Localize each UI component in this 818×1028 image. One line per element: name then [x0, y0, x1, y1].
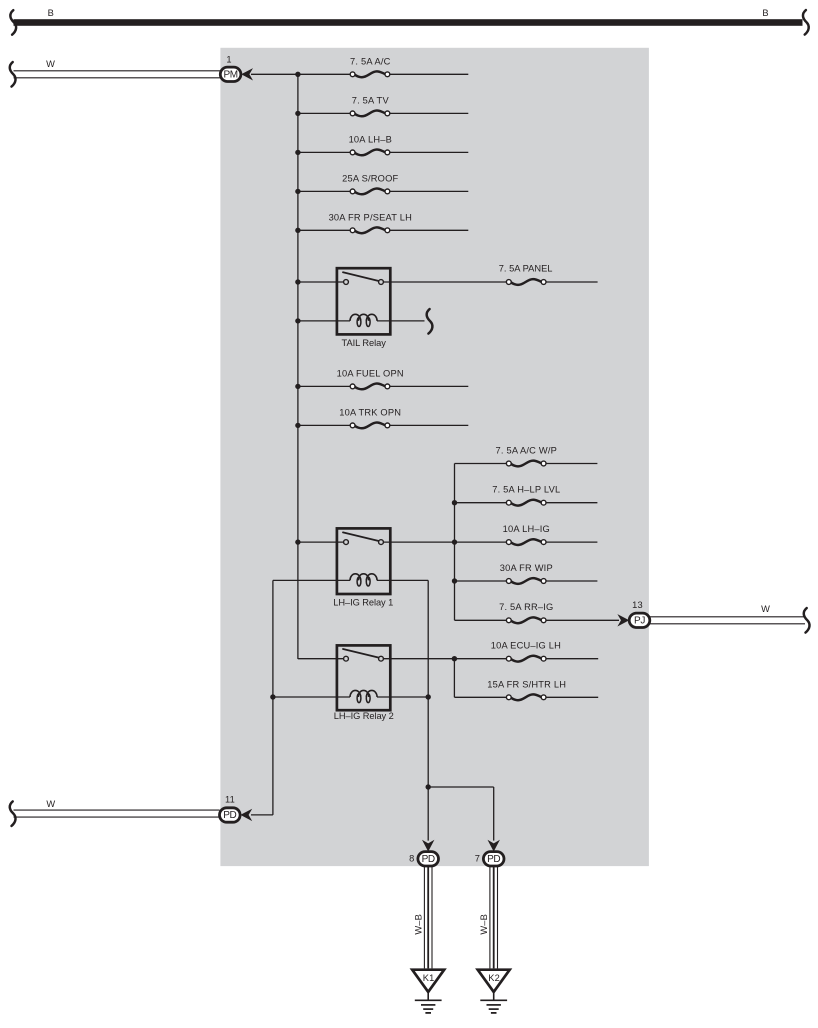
fuse row 10A FUEL OPN: wire left [298, 385, 350, 387]
break symbol right of PJ W wire [804, 608, 810, 633]
fuse row 25A S/ROOF: wire left [298, 190, 350, 192]
wire S/HTR sub-bus to fuse [454, 696, 506, 698]
wire W-B from PD7 to ground K2 [490, 866, 498, 968]
svg-text:7. 5A A/C W/P: 7. 5A A/C W/P [496, 445, 558, 455]
junction ECU row to S/HTR sub-bus [452, 656, 457, 661]
svg-text:25A S/ROOF: 25A S/ROOF [342, 173, 398, 183]
wire left riser to relay1 coil [273, 579, 350, 581]
arrow into PD pin 8 [422, 840, 434, 852]
wire relay1 switch output to sub-bus and LH-IG fuse [383, 541, 506, 543]
svg-text:10A LH–B: 10A LH–B [349, 134, 392, 144]
break symbol at TAIL coil wire [427, 309, 433, 334]
fuse 7. 5A A/C W/P [506, 461, 546, 467]
svg-text:7. 5A PANEL: 7. 5A PANEL [499, 264, 553, 274]
fuse row 25A S/ROOF: wire right [390, 190, 469, 192]
svg-text:11: 11 [225, 794, 235, 804]
wire W from PJ [650, 617, 805, 624]
wire S/HTR fuse to end [546, 696, 598, 698]
junction x428 riser relay2 coil [426, 694, 431, 699]
fuse row 7. 5A A/C: wire left [298, 73, 350, 75]
svg-text:1: 1 [226, 54, 231, 64]
fuse 10A LH–IG [506, 539, 546, 545]
wire relay2 switch output to ECU-IG fuse [383, 658, 506, 660]
LH-IG Relay 2 box [337, 645, 390, 710]
svg-text:PD: PD [487, 854, 500, 865]
fuse row 10A TRK OPN: wire right [390, 424, 469, 426]
fuse 15A FR S/HTR LH [506, 694, 546, 700]
wire TAIL relay switch output to PANEL fuse [383, 281, 506, 283]
svg-text:W–B: W–B [413, 914, 423, 935]
fuse row 7. 5A H–LP LVL: wire left [455, 502, 507, 504]
svg-text:PM: PM [223, 69, 237, 80]
LH-IG Relay 1 switch contacts [343, 532, 383, 544]
connector PM pin 1 [220, 67, 241, 81]
svg-text:7. 5A RR–IG: 7. 5A RR–IG [499, 602, 553, 612]
wire bus corner to relay2 switch [297, 657, 299, 660]
svg-text:TAIL Relay: TAIL Relay [342, 338, 387, 348]
svg-text:10A LH–IG: 10A LH–IG [503, 524, 550, 534]
junction branch to PD7 [426, 784, 431, 789]
wire from PM arrow to bus junction [251, 73, 298, 75]
fuse 10A FUEL OPN [350, 384, 390, 390]
ground K2 [478, 970, 510, 1013]
junction bus TAIL coil [295, 318, 300, 323]
fuse 10A LH–B [350, 150, 390, 156]
LH-IG Relay 2 coil [350, 690, 377, 702]
wire TAIL relay coil to break [377, 320, 425, 322]
fuse row 10A LH–B: wire left [298, 151, 350, 153]
fuse row 7. 5A A/C: wire right [390, 73, 469, 75]
svg-text:LH–IG Relay 1: LH–IG Relay 1 [333, 597, 393, 607]
wire W to PD11 [14, 810, 220, 817]
svg-text:10A ECU–IG LH: 10A ECU–IG LH [491, 641, 561, 651]
svg-text:10A FUEL OPN: 10A FUEL OPN [337, 368, 404, 378]
fuse 25A S/ROOF [350, 189, 390, 195]
connector PD pin 8 [418, 852, 439, 866]
svg-text:8: 8 [409, 854, 414, 864]
fuse 30A FR P/SEAT LH [350, 227, 390, 233]
wire PANEL fuse to end [546, 281, 598, 283]
fuse row 7. 5A TV: wire left [298, 112, 350, 114]
LH-IG Relay 2 switch contacts [343, 649, 383, 661]
LH-IG Relay 1 coil [350, 574, 377, 586]
svg-text:K2: K2 [488, 973, 500, 983]
junction on sub-bus at row 7. 5A H–LP LVL [452, 500, 457, 505]
arrow into PM [241, 68, 253, 80]
fuse row 7. 5A A/C W/P: wire left [455, 463, 507, 465]
junction on bus at row 10A FUEL OPN [295, 384, 300, 389]
svg-text:B: B [762, 8, 768, 18]
break symbol right of bus bar [803, 10, 809, 34]
wire ECU-IG fuse to end [546, 658, 598, 660]
fuse 7. 5A TV [350, 111, 390, 117]
riser to PD pin 7 [493, 787, 495, 841]
svg-text:W: W [761, 604, 770, 614]
TAIL relay box [337, 268, 390, 334]
svg-text:PD: PD [223, 810, 236, 821]
fuse 7. 5A RR–IG [506, 617, 546, 623]
wire W-B from PD8 to ground K1 [424, 866, 432, 968]
wire relay1 coil to x428 riser [377, 579, 428, 581]
junction bus relay1 switch [295, 539, 300, 544]
wire PD11 row [251, 814, 273, 816]
TAIL relay switch contacts [343, 272, 383, 284]
wire relay2 coil to x428 riser [377, 696, 428, 698]
svg-text:15A FR S/HTR LH: 15A FR S/HTR LH [487, 679, 566, 689]
svg-text:13: 13 [632, 600, 643, 610]
svg-text:30A FR P/SEAT LH: 30A FR P/SEAT LH [329, 212, 412, 222]
svg-text:7: 7 [475, 854, 480, 864]
break symbol left of PD11 W wire [10, 801, 16, 826]
fuse 7. 5A H–LP LVL [506, 500, 546, 506]
svg-text:B: B [48, 8, 54, 18]
fuse 7. 5A A/C [350, 71, 390, 77]
battery bus bar B [14, 19, 803, 26]
fuse 10A ECU-IG LH [506, 656, 546, 662]
wire bus to relay1 switch [298, 541, 344, 543]
connector PD pin 7 [483, 852, 504, 866]
S/HTR sub-bus vertical [453, 659, 455, 698]
connector PJ pin 13 [629, 613, 650, 627]
fuse row 10A TRK OPN: wire left [298, 424, 350, 426]
fuse row 7. 5A A/C W/P: wire right [546, 463, 597, 465]
svg-text:PD: PD [422, 854, 435, 865]
junction on bus at row 7. 5A A/C [295, 72, 300, 77]
junction on bus at row 10A TRK OPN [295, 423, 300, 428]
left riser from relay coils down to PD pin 11 [272, 580, 274, 815]
ground K1 [412, 970, 444, 1013]
fuse row 7. 5A TV: wire right [390, 112, 469, 114]
riser x428 from relay1 coil down to PD pin 8 [427, 580, 429, 840]
fuse row 10A FUEL OPN: wire right [390, 385, 469, 387]
arrow into PD pin 7 [488, 840, 500, 852]
junction on sub-bus at row 30A FR WIP [452, 578, 457, 583]
wire LH-IG fuse to end [546, 541, 597, 543]
fuse row 30A FR WIP: wire left [455, 580, 507, 582]
fuse row 7. 5A RR–IG: wire left [455, 619, 507, 621]
fuse/relay box panel background [220, 48, 649, 866]
arrow into PD pin 11 [240, 809, 252, 821]
wire bus to TAIL relay switch [298, 281, 344, 283]
svg-text:PJ: PJ [634, 615, 645, 626]
svg-text:W–B: W–B [479, 914, 489, 935]
wire W to connector PM pin 1 [14, 71, 221, 78]
fuse row 30A FR P/SEAT LH: wire right [390, 229, 469, 231]
junction on bus at row 10A LH–B [295, 150, 300, 155]
fuse row 30A FR P/SEAT LH: wire left [298, 229, 350, 231]
svg-text:LH–IG Relay 2: LH–IG Relay 2 [334, 711, 394, 721]
wire branch to PD7 riser [428, 786, 494, 788]
svg-text:K1: K1 [423, 973, 435, 983]
junction on sub-bus at row 10A LH–IG [452, 539, 457, 544]
fuse 7. 5A PANEL [506, 279, 546, 285]
arrow into PJ [617, 614, 629, 626]
LH-IG Relay 1 box [337, 528, 390, 594]
fuse row 7. 5A H–LP LVL: wire right [546, 502, 597, 504]
break symbol left of W wire [10, 62, 16, 87]
right sub-bus vertical [454, 464, 456, 621]
break symbol left of bus bar [10, 10, 16, 35]
TAIL relay coil [350, 314, 377, 326]
fuse row 30A FR WIP: wire right [546, 580, 597, 582]
junction on bus at row 30A FR P/SEAT LH [295, 228, 300, 233]
main vertical bus from PM [297, 74, 299, 658]
svg-text:10A TRK OPN: 10A TRK OPN [339, 407, 401, 417]
junction on bus at row 25A S/ROOF [295, 189, 300, 194]
svg-text:W: W [46, 799, 55, 809]
connector PD pin 11 [220, 808, 241, 822]
wire bus to TAIL relay coil [298, 320, 350, 322]
svg-text:7. 5A A/C: 7. 5A A/C [350, 56, 391, 66]
svg-text:7. 5A TV: 7. 5A TV [352, 95, 390, 105]
wire left riser to relay2 coil [273, 696, 350, 698]
svg-text:W: W [46, 59, 55, 69]
svg-text:30A FR WIP: 30A FR WIP [500, 563, 553, 573]
svg-text:7. 5A H–LP LVL: 7. 5A H–LP LVL [492, 485, 560, 495]
junction left riser relay2 coil [270, 694, 275, 699]
junction bus TAIL switch [295, 279, 300, 284]
junction on bus at row 7. 5A TV [295, 111, 300, 116]
fuse row 7. 5A RR–IG: wire right [546, 619, 619, 621]
fuse row 10A LH–B: wire right [390, 151, 469, 153]
fuse 10A TRK OPN [350, 423, 390, 429]
fuse 30A FR WIP [506, 578, 546, 584]
